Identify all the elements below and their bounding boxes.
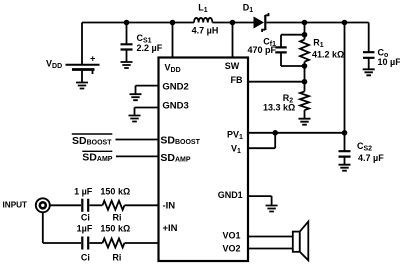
svg-text:+: + [90, 54, 95, 64]
svg-text:470 pF: 470 pF [248, 45, 277, 55]
svg-text:13.3 kΩ: 13.3 kΩ [263, 102, 295, 112]
svg-text:Ci: Ci [81, 252, 90, 262]
svg-text:2.2 µF: 2.2 µF [137, 43, 163, 53]
svg-text:Ci: Ci [81, 212, 90, 222]
svg-text:INPUT: INPUT [3, 200, 28, 209]
svg-text:41.2 kΩ: 41.2 kΩ [312, 50, 344, 60]
svg-text:GND2: GND2 [162, 82, 188, 93]
svg-text:GND3: GND3 [162, 100, 188, 111]
svg-text:-IN: -IN [163, 201, 176, 212]
svg-text:SW: SW [225, 61, 240, 71]
svg-text:VO2: VO2 [223, 244, 241, 254]
svg-text:10 µF: 10 µF [378, 57, 400, 67]
svg-text:150 kΩ: 150 kΩ [100, 186, 130, 196]
svg-text:150 kΩ: 150 kΩ [100, 223, 130, 233]
svg-text:4.7 µH: 4.7 µH [192, 26, 219, 36]
svg-text:GND1: GND1 [218, 190, 243, 200]
svg-text:1µF: 1µF [77, 223, 93, 233]
svg-text:FB: FB [231, 75, 243, 85]
svg-text:1 µF: 1 µF [74, 186, 93, 196]
svg-text:4.7 µF: 4.7 µF [358, 153, 384, 163]
svg-text:+IN: +IN [163, 223, 178, 234]
svg-text:Ri: Ri [112, 252, 121, 262]
svg-text:VO1: VO1 [223, 231, 241, 241]
svg-text:Ri: Ri [113, 212, 122, 222]
